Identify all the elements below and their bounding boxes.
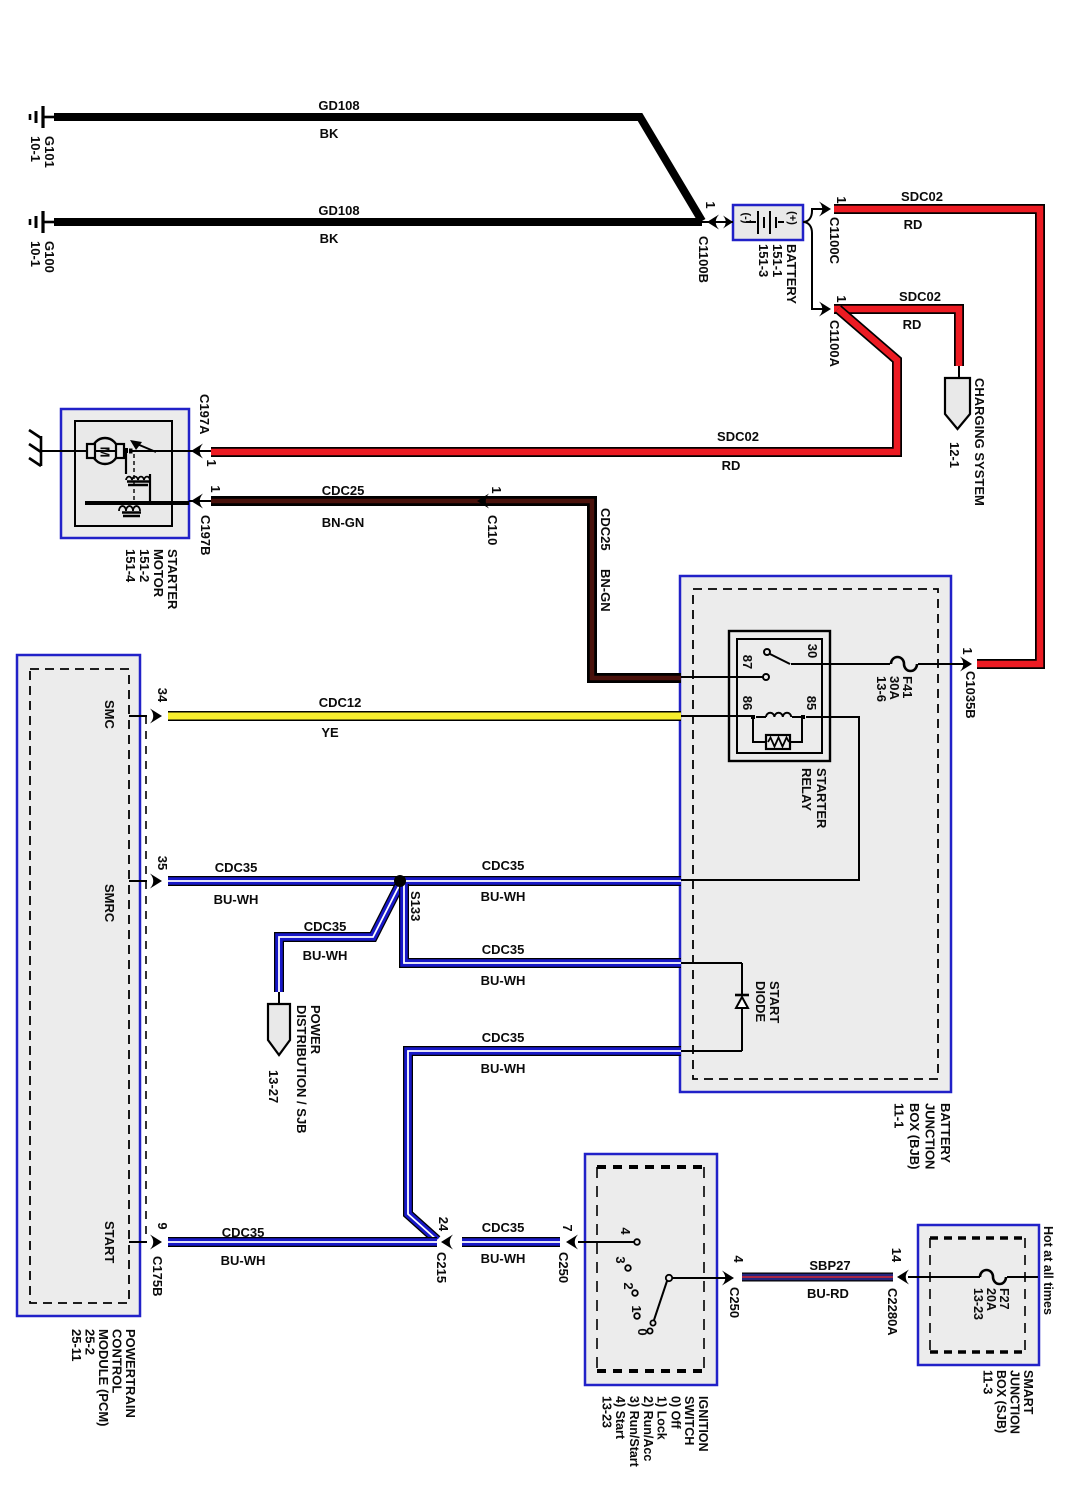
svg-text:CDC35: CDC35 <box>482 858 525 873</box>
svg-text:BU-WH: BU-WH <box>214 892 259 907</box>
svg-text:C110: C110 <box>485 515 500 545</box>
svg-text:12-1: 12-1 <box>947 442 962 468</box>
svg-text:BU-WH: BU-WH <box>481 973 526 988</box>
svg-text:35: 35 <box>155 856 170 870</box>
svg-text:30: 30 <box>805 644 820 658</box>
svg-text:85: 85 <box>804 696 819 710</box>
svg-text:BU-WH: BU-WH <box>303 948 348 963</box>
svg-text:RD: RD <box>903 317 922 332</box>
svg-text:1: 1 <box>834 295 849 302</box>
svg-text:C1100B: C1100B <box>696 236 711 283</box>
svg-text:CDC12: CDC12 <box>319 695 362 710</box>
svg-text:2: 2 <box>621 1282 636 1289</box>
svg-text:GD108: GD108 <box>318 203 359 218</box>
svg-text:1: 1 <box>204 459 219 466</box>
svg-text:C197A: C197A <box>197 394 212 435</box>
svg-text:87: 87 <box>740 655 755 669</box>
svg-text:GD108: GD108 <box>318 98 359 113</box>
svg-text:CDC35: CDC35 <box>222 1225 265 1240</box>
svg-text:34: 34 <box>155 688 170 703</box>
svg-text:Hot at all times: Hot at all times <box>1041 1226 1055 1315</box>
svg-text:C1100C: C1100C <box>827 217 842 265</box>
svg-text:SDC02: SDC02 <box>901 189 943 204</box>
svg-text:1: 1 <box>489 486 504 493</box>
svg-text:STARTDIODE: STARTDIODE <box>753 981 782 1023</box>
svg-text:BU-WH: BU-WH <box>481 1061 526 1076</box>
svg-text:C2280A: C2280A <box>885 1288 900 1336</box>
svg-text:CDC25: CDC25 <box>598 508 613 551</box>
svg-text:(+): (+) <box>786 211 798 225</box>
svg-text:1: 1 <box>629 1305 644 1312</box>
svg-text:3: 3 <box>613 1256 628 1263</box>
svg-text:F4130A13-6: F4130A13-6 <box>874 676 915 702</box>
svg-text:24: 24 <box>436 1217 451 1232</box>
svg-text:START: START <box>102 1221 117 1263</box>
svg-text:BK: BK <box>320 231 339 246</box>
svg-text:13-27: 13-27 <box>266 1070 281 1103</box>
svg-text:RD: RD <box>904 217 923 232</box>
svg-text:SMC: SMC <box>102 700 117 730</box>
svg-text:0: 0 <box>635 1328 650 1335</box>
svg-text:BN-GN: BN-GN <box>598 569 613 612</box>
svg-text:SBP27: SBP27 <box>809 1258 850 1273</box>
svg-text:1: 1 <box>834 196 849 203</box>
svg-text:BU-RD: BU-RD <box>807 1286 849 1301</box>
svg-text:SDC02: SDC02 <box>899 289 941 304</box>
svg-text:7: 7 <box>560 1224 575 1231</box>
svg-text:CDC35: CDC35 <box>482 1220 525 1235</box>
svg-text:SDC02: SDC02 <box>717 429 759 444</box>
svg-text:C197B: C197B <box>198 515 213 555</box>
svg-text:C215: C215 <box>434 1252 449 1283</box>
svg-text:1: 1 <box>703 201 718 208</box>
svg-text:C1035B: C1035B <box>963 671 978 719</box>
svg-text:CDC35: CDC35 <box>482 1030 525 1045</box>
svg-text:BN-GN: BN-GN <box>322 515 365 530</box>
svg-text:4: 4 <box>618 1227 633 1235</box>
svg-text:CHARGING SYSTEM: CHARGING SYSTEM <box>972 378 987 506</box>
svg-text:C250: C250 <box>556 1252 571 1283</box>
svg-text:9: 9 <box>155 1222 170 1229</box>
svg-text:CDC25: CDC25 <box>322 483 365 498</box>
svg-text:BU-WH: BU-WH <box>221 1253 266 1268</box>
svg-text:1: 1 <box>208 485 223 492</box>
svg-text:(-): (-) <box>740 213 752 224</box>
svg-text:RD: RD <box>722 458 741 473</box>
svg-text:1: 1 <box>960 647 975 654</box>
svg-text:SMRC: SMRC <box>102 884 117 923</box>
svg-text:C175B: C175B <box>150 1256 165 1296</box>
svg-text:CDC35: CDC35 <box>215 860 258 875</box>
svg-text:4: 4 <box>731 1255 746 1263</box>
svg-text:14: 14 <box>889 1248 904 1263</box>
svg-text:S133: S133 <box>408 891 423 921</box>
svg-text:YE: YE <box>321 725 339 740</box>
svg-text:86: 86 <box>740 696 755 710</box>
svg-text:C250: C250 <box>727 1287 742 1318</box>
svg-text:BU-WH: BU-WH <box>481 889 526 904</box>
svg-text:BU-WH: BU-WH <box>481 1251 526 1266</box>
svg-text:BK: BK <box>320 126 339 141</box>
svg-text:M: M <box>98 447 113 458</box>
svg-text:CDC35: CDC35 <box>482 942 525 957</box>
svg-text:CDC35: CDC35 <box>304 919 347 934</box>
svg-text:C1100A: C1100A <box>827 320 842 368</box>
